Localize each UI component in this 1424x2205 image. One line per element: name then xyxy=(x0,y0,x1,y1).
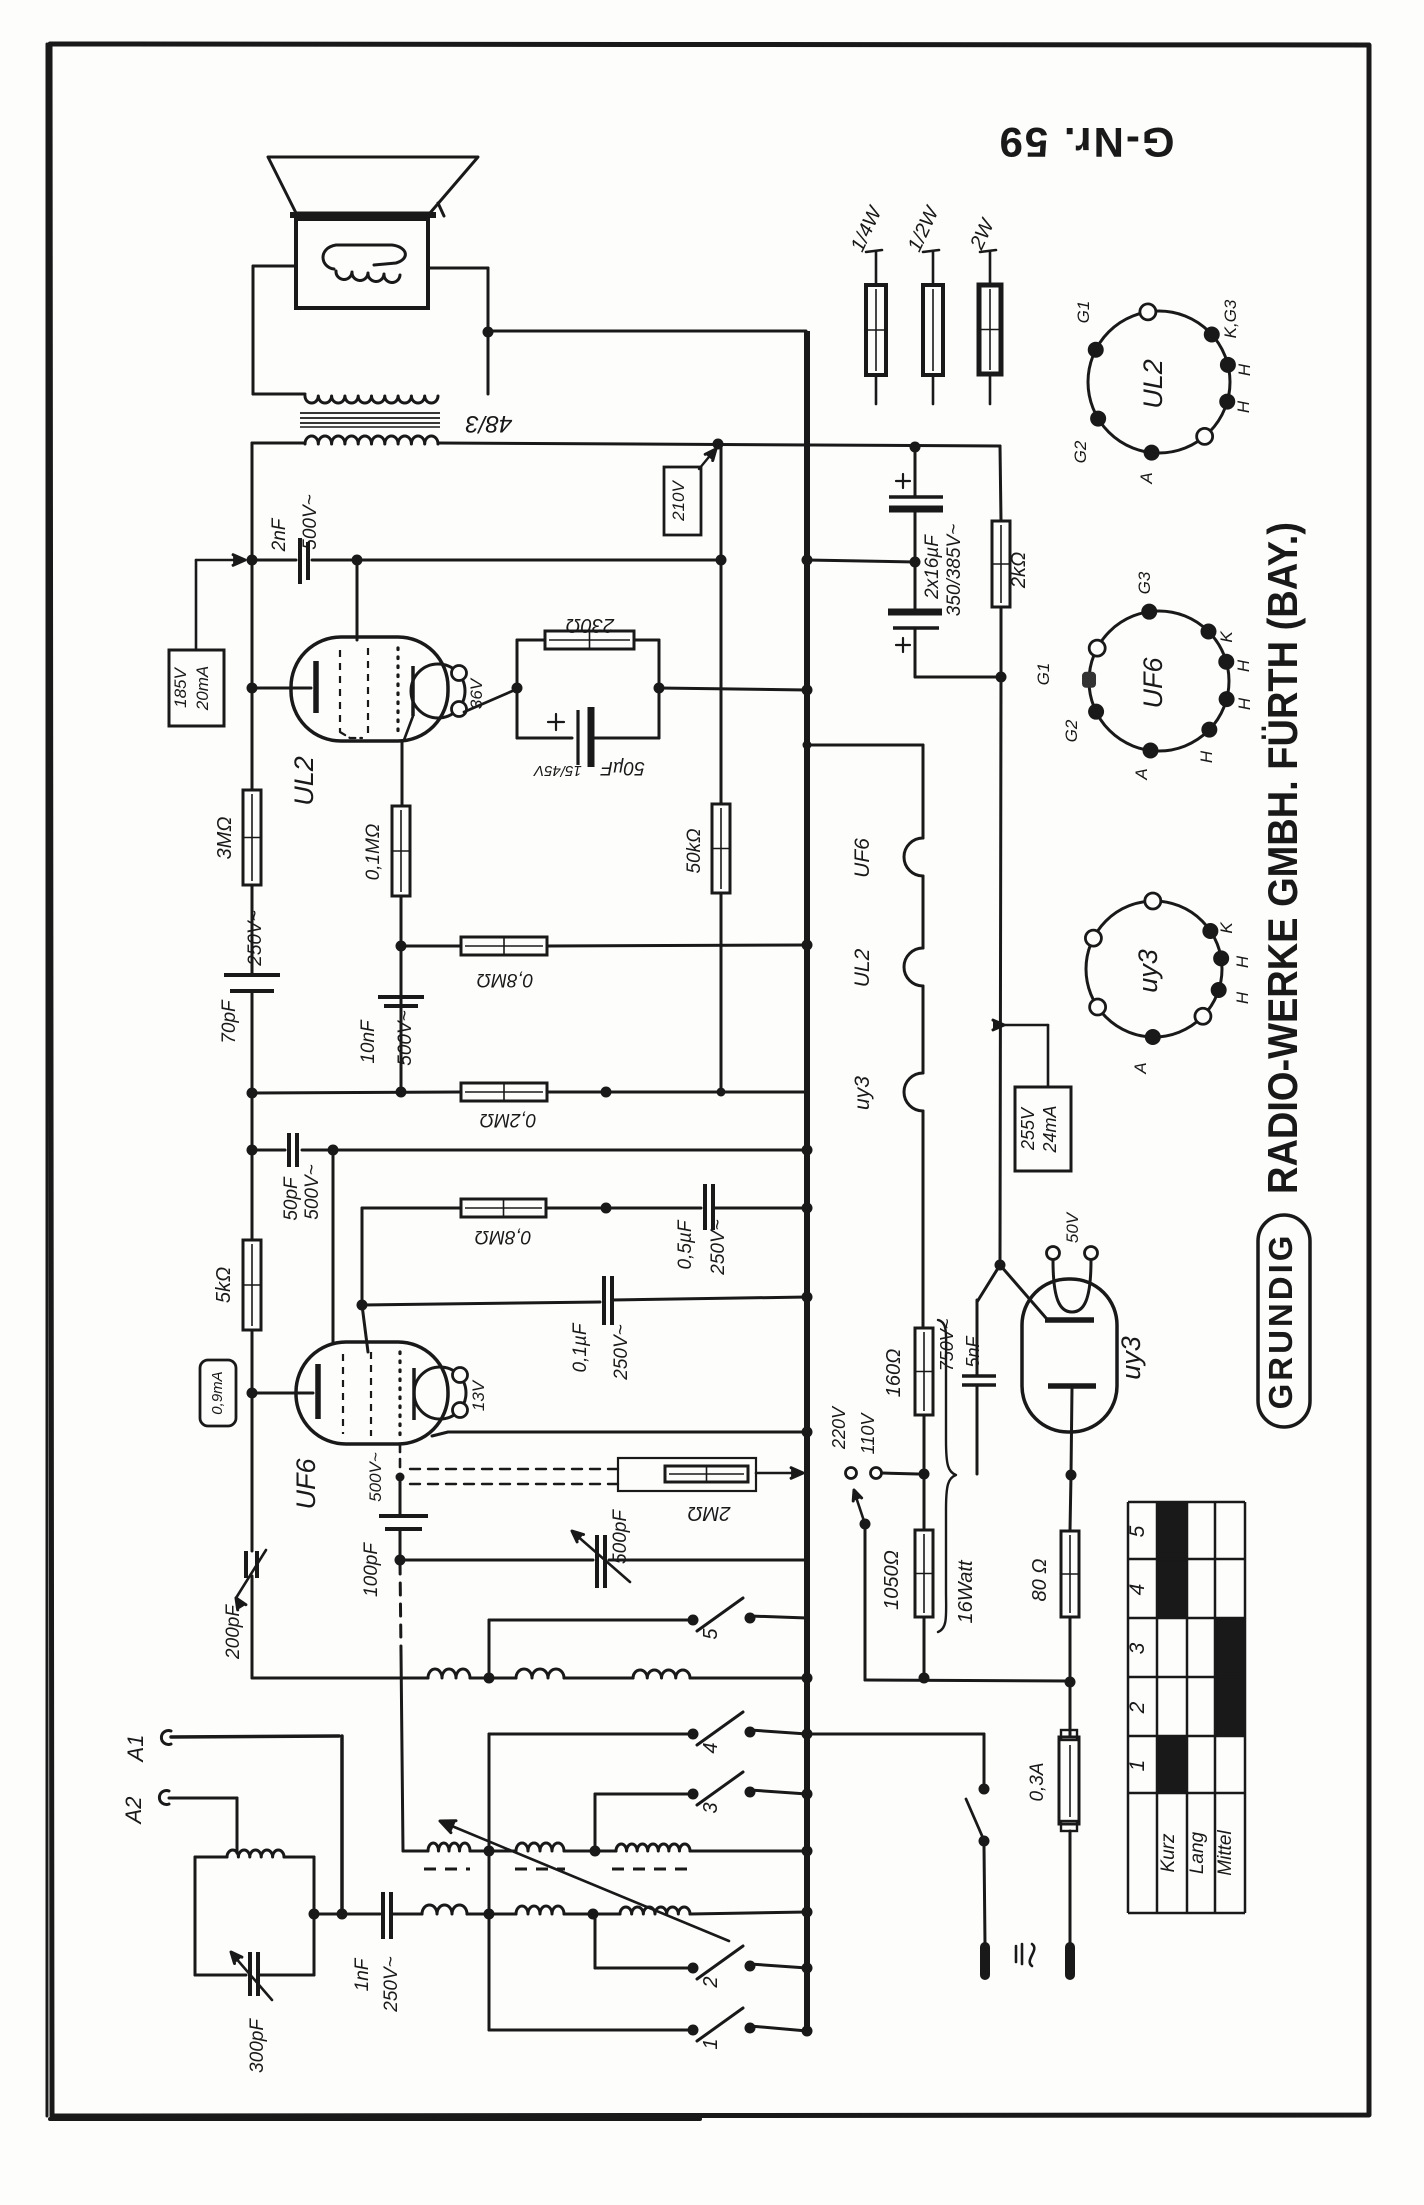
UF6 anode xyxy=(412,1368,416,1420)
svg-text:UL2: UL2 xyxy=(851,948,874,987)
band table xyxy=(1157,1502,1187,1618)
capacitor 2x16µF 350/385V~ upper xyxy=(914,447,917,497)
svg-text:H: H xyxy=(1197,750,1216,763)
capacitor 70pF 250V~ xyxy=(224,973,280,977)
svg-text:2kΩ: 2kΩ xyxy=(1008,552,1030,589)
wire heater chain xyxy=(807,744,923,747)
svg-text:2: 2 xyxy=(1126,1701,1149,1714)
wire oscillator line down (dashed top) xyxy=(400,1562,401,1652)
svg-text:Lang: Lang xyxy=(1187,1831,1208,1874)
svg-text:UF6: UF6 xyxy=(851,838,874,878)
resistor 160Ω xyxy=(915,1328,933,1415)
node 10nF bottom xyxy=(396,1087,407,1098)
node left rail 1093 xyxy=(247,1088,258,1099)
svg-text:48/3: 48/3 xyxy=(465,410,512,437)
svg-text:G1: G1 xyxy=(1074,301,1093,324)
box 210V xyxy=(664,467,701,535)
svg-text:70pF: 70pF xyxy=(219,999,240,1044)
svg-text:5nF: 5nF xyxy=(963,1335,983,1367)
tube UL2 envelope xyxy=(291,637,448,741)
wire switch4 left drop xyxy=(488,1734,491,2030)
wire B+ line to the right (210V line) xyxy=(438,443,1000,446)
svg-text:H: H xyxy=(1233,991,1252,1004)
legend resistor 2W xyxy=(989,252,992,285)
node speaker/output junction xyxy=(483,327,494,338)
svg-text:4: 4 xyxy=(1126,1584,1149,1596)
capacitor 0,5µF 250V~ xyxy=(703,1184,707,1230)
resistor 0,1MΩ xyxy=(392,806,410,896)
logo GRUNDIG xyxy=(1258,1215,1310,1427)
node bus taps xyxy=(802,555,813,566)
UF6 heater pins 13V xyxy=(453,1368,468,1383)
coil row1 a xyxy=(428,1669,470,1678)
node UY3 cathode xyxy=(1066,1470,1077,1481)
coil row3 a xyxy=(422,1905,467,1914)
node cathode block right xyxy=(654,683,665,694)
wire UY3 anode lead xyxy=(1000,1265,1046,1318)
capacitor 50pF 500V~ xyxy=(287,1133,291,1167)
resistor 0,8MΩ (UL2 grid stopper row) xyxy=(401,945,461,948)
wire 0.1u row xyxy=(362,1302,600,1305)
svg-text:50kΩ: 50kΩ xyxy=(684,828,705,873)
power switch xyxy=(807,1733,984,1736)
svg-text:0,9mA: 0,9mA xyxy=(209,1371,226,1414)
svg-text:K: K xyxy=(1217,922,1236,934)
svg-text:RADIO-WERKE GMBH. FÜRTH (BAY.): RADIO-WERKE GMBH. FÜRTH (BAY.) xyxy=(1259,522,1306,1194)
wire row2 left xyxy=(403,1850,428,1853)
capacitor 50µF 15/45V xyxy=(516,640,519,738)
svg-text:UF6: UF6 xyxy=(291,1458,321,1510)
svg-text:G2: G2 xyxy=(1071,440,1090,463)
measurement box 185V 20mA xyxy=(169,650,224,726)
fuse 0,3A xyxy=(1069,1682,1072,1737)
svg-text:2nF: 2nF xyxy=(269,517,290,552)
svg-text:G2: G2 xyxy=(1062,719,1081,742)
svg-text:255V: 255V xyxy=(1018,1106,1038,1151)
svg-text:10nF: 10nF xyxy=(358,1019,379,1064)
svg-text:210V: 210V xyxy=(669,479,688,521)
svg-text:350/385V~: 350/385V~ xyxy=(944,524,965,616)
trimmer capacitor 500pF xyxy=(595,1535,599,1588)
wire UL2 pins to cathode block xyxy=(464,689,517,712)
trimmer capacitor 200pF xyxy=(244,1551,248,1578)
svg-text:0,1MΩ: 0,1MΩ xyxy=(363,824,384,881)
antenna coil box xyxy=(195,1856,227,1859)
tube UY3 envelope xyxy=(1022,1279,1117,1432)
svg-text:Kurz: Kurz xyxy=(1158,1833,1179,1873)
svg-text:uy3: uy3 xyxy=(1116,1336,1146,1380)
coil row3 c xyxy=(620,1907,690,1914)
switch 5 xyxy=(688,1615,699,1626)
brace 16Watt xyxy=(938,1320,956,1632)
svg-text:H: H xyxy=(1234,659,1253,672)
svg-text:A: A xyxy=(1131,1062,1150,1074)
svg-text:H: H xyxy=(1234,400,1253,413)
antenna coil xyxy=(227,1850,284,1857)
wire UF6 cathode lead xyxy=(252,1392,313,1395)
UL2 grid3 dotted xyxy=(396,648,399,736)
svg-text:160Ω: 160Ω xyxy=(883,1349,905,1398)
wire mains bottom xyxy=(865,1680,1070,1681)
svg-text:GRUNDIG: GRUNDIG xyxy=(1262,1233,1299,1410)
node UY3 anode xyxy=(995,1260,1006,1271)
svg-text:1: 1 xyxy=(700,2038,722,2049)
UL2 cathode xyxy=(313,661,319,713)
svg-text:110V: 110V xyxy=(858,1412,878,1455)
wire main chassis bus xyxy=(804,331,810,2032)
wire UY3 cathode lead xyxy=(1071,1388,1072,1474)
socket uy3 xyxy=(1086,901,1222,1037)
svg-text:A: A xyxy=(1137,472,1156,484)
svg-text:UL2: UL2 xyxy=(1138,359,1168,409)
output transformer secondary xyxy=(305,436,438,444)
wire UL2 grid top xyxy=(356,560,359,640)
resistor 2MΩ dashed box xyxy=(618,1458,756,1491)
UF6 pinch circle xyxy=(414,1367,466,1419)
node left rail / grid line xyxy=(247,555,258,566)
svg-text:250V~: 250V~ xyxy=(708,1219,729,1275)
svg-text:UF6: UF6 xyxy=(1138,657,1168,709)
svg-text:A2: A2 xyxy=(121,1797,146,1826)
wire row1 left xyxy=(252,1677,428,1680)
svg-text:220V: 220V xyxy=(829,1405,849,1450)
wire switch3 to row2 xyxy=(594,1794,597,1851)
tuning arrow xyxy=(447,1824,729,1941)
voltage selector blade xyxy=(860,1519,871,1530)
capacitor 5nF 750V~ xyxy=(977,1265,1000,1302)
capacitor 1nF 250V~ xyxy=(381,1892,385,1939)
svg-text:3MΩ: 3MΩ xyxy=(214,817,236,860)
svg-text:500V~: 500V~ xyxy=(300,494,321,549)
trimmer capacitor 300pF xyxy=(248,1952,252,1996)
output transformer 48/3 primary xyxy=(305,396,438,403)
legend resistor 1/2W xyxy=(932,252,935,285)
svg-text:50µF: 50µF xyxy=(600,757,645,778)
wire switch2 to row3 xyxy=(594,1914,597,1968)
svg-text:H: H xyxy=(1235,363,1254,376)
svg-text:5: 5 xyxy=(700,1628,722,1640)
wire left rail xyxy=(251,443,254,790)
node left rail UF6 cathode xyxy=(247,1388,258,1399)
svg-text:0,8MΩ: 0,8MΩ xyxy=(475,1226,532,1247)
socket UF6 xyxy=(1089,611,1229,751)
node 50k feed xyxy=(716,555,727,566)
coil row3 b xyxy=(516,1906,564,1914)
UY3 cathode xyxy=(1048,1383,1096,1389)
wire rectifier output down xyxy=(1000,677,1001,1265)
svg-text:G3: G3 xyxy=(1135,571,1154,594)
svg-text:5kΩ: 5kΩ xyxy=(213,1267,235,1303)
svg-text:1nF: 1nF xyxy=(352,1957,373,1991)
svg-text:uy3: uy3 xyxy=(851,1076,874,1110)
node grid down xyxy=(352,555,363,566)
svg-text:20mA: 20mA xyxy=(193,666,212,711)
terminal 220V xyxy=(846,1468,857,1479)
node 0.5u/screen xyxy=(601,1203,612,1214)
svg-text:24mA: 24mA xyxy=(1040,1105,1060,1153)
wire AF line xyxy=(252,1149,285,1152)
svg-text:750V~: 750V~ xyxy=(937,1319,957,1372)
node box tap xyxy=(309,1909,320,1920)
wire 185V pointer xyxy=(195,560,198,650)
svg-text:15/45V: 15/45V xyxy=(532,762,582,779)
UF6 grid3 dotted xyxy=(398,1352,401,1438)
svg-text:UL2: UL2 xyxy=(289,756,319,806)
wire 2M to bus with arrow xyxy=(756,1472,797,1475)
svg-text:50pF: 50pF xyxy=(281,1176,302,1221)
svg-text:200pF: 200pF xyxy=(223,1604,244,1660)
wire anode node xyxy=(400,896,403,1092)
svg-text:0,1µF: 0,1µF xyxy=(570,1322,591,1372)
capacitor 2nF 500V~ xyxy=(298,538,302,584)
svg-text:5: 5 xyxy=(1126,1525,1149,1537)
node UF6 grid xyxy=(328,1145,339,1156)
node cathode block left xyxy=(512,683,523,694)
wire speaker right xyxy=(428,267,488,270)
box 0,9mA xyxy=(200,1360,236,1426)
coupling dashes row2 xyxy=(424,1868,470,1871)
node row1 ab xyxy=(484,1673,495,1684)
svg-text:300pF: 300pF xyxy=(247,2018,268,2073)
wire A2 xyxy=(169,1797,237,1800)
coil row2 c xyxy=(616,1844,690,1851)
wire A1 xyxy=(171,1736,339,1737)
resistor 50kΩ xyxy=(712,804,730,893)
wire UL2 grid line xyxy=(252,559,296,562)
capacitor 100pF 500V~ xyxy=(399,1477,402,1515)
wire 0.8M left corner down xyxy=(361,1208,364,1305)
svg-text:185V: 185V xyxy=(171,666,190,707)
svg-text:G-Nr. 59: G-Nr. 59 xyxy=(997,119,1174,166)
resistor 1050Ω xyxy=(923,1474,926,1530)
UL2 anode xyxy=(411,666,415,716)
wire UF6 anode to bus xyxy=(432,1432,807,1436)
wire screen line xyxy=(252,1092,461,1093)
svg-text:50V: 50V xyxy=(1063,1211,1082,1243)
mains plug pin right xyxy=(1065,1947,1075,1975)
node row3 ab xyxy=(484,1909,495,1920)
wire 0.8M lower row xyxy=(362,1207,461,1210)
wire switch5 feed xyxy=(488,1620,491,1678)
UL2 pinch circle xyxy=(411,664,465,718)
node 50k bottom xyxy=(717,1088,726,1097)
node row3 bc xyxy=(588,1909,599,1920)
wire 50k feed vertical xyxy=(720,444,723,804)
svg-text:H: H xyxy=(1235,697,1254,710)
svg-text:A: A xyxy=(1132,768,1151,780)
resistor 230Ω xyxy=(517,639,545,642)
wire grid2 into UF6 xyxy=(362,1305,368,1352)
wire junction to bus xyxy=(488,330,806,333)
node 0.1u row xyxy=(357,1300,368,1311)
coil row2 a xyxy=(428,1843,470,1851)
svg-text:1: 1 xyxy=(1126,1760,1149,1772)
tube UF6 envelope xyxy=(296,1342,448,1444)
terminal 110V xyxy=(871,1468,882,1479)
speaker magnet box xyxy=(296,219,428,308)
node left rail 1150 xyxy=(247,1145,258,1156)
svg-text:2: 2 xyxy=(700,1976,722,1988)
wire AVC dashed xyxy=(399,1444,402,1477)
node row2 bc xyxy=(590,1846,601,1857)
svg-text:250V~: 250V~ xyxy=(381,1956,402,2012)
UY3 heater pins 50V xyxy=(1047,1247,1060,1260)
node fuse top xyxy=(1065,1677,1076,1688)
svg-text:G1: G1 xyxy=(1034,663,1053,686)
UY3 anode xyxy=(1045,1317,1094,1323)
voice coil xyxy=(323,245,405,269)
svg-text:K,G3: K,G3 xyxy=(1221,299,1240,338)
svg-text:H: H xyxy=(1233,955,1252,968)
switch 4 xyxy=(489,1733,688,1736)
svg-text:Mittel: Mittel xyxy=(1215,1830,1236,1876)
mains plug pin left xyxy=(980,1947,990,1975)
svg-text:uy3: uy3 xyxy=(1133,949,1163,993)
svg-text:16Watt: 16Watt xyxy=(955,1559,977,1623)
node A1 tap xyxy=(337,1909,348,1920)
svg-text:3: 3 xyxy=(1126,1642,1149,1654)
resistor 3MΩ xyxy=(243,790,261,885)
switch 1 xyxy=(489,2029,688,2032)
svg-text:2MΩ: 2MΩ xyxy=(688,1502,732,1524)
wire row1 mid xyxy=(489,1677,516,1680)
arrow 210V pointer xyxy=(699,452,713,469)
wire row3 left xyxy=(314,1913,380,1916)
coil row1 c xyxy=(633,1670,690,1678)
svg-text:100pF: 100pF xyxy=(361,1542,382,1597)
wire UL2 cathode lead xyxy=(252,687,311,690)
svg-text:0,8MΩ: 0,8MΩ xyxy=(477,969,534,990)
UF6 grids dashed xyxy=(342,1354,344,1434)
svg-text:13V: 13V xyxy=(469,1379,488,1411)
mains symbol ~ xyxy=(1015,1946,1018,1962)
transformer core xyxy=(300,412,440,414)
capacitor 2x16µF lower xyxy=(914,562,917,611)
wire 255V pointer xyxy=(993,1020,1004,1030)
svg-text:80 Ω: 80 Ω xyxy=(1029,1558,1051,1601)
svg-text:500V~: 500V~ xyxy=(366,1452,385,1502)
svg-text:500V~: 500V~ xyxy=(395,1010,416,1065)
svg-text:4: 4 xyxy=(700,1742,722,1753)
wire secondary left to main left rail xyxy=(252,442,305,445)
switch 2 xyxy=(595,1967,688,1970)
loudspeaker xyxy=(268,157,478,213)
resistor 0,8MΩ (AVC) xyxy=(461,1199,546,1217)
legend resistor 1/4W xyxy=(875,252,878,285)
svg-text:250V~: 250V~ xyxy=(611,1324,632,1380)
node left rail / cathode line xyxy=(247,683,258,694)
resistor 2kΩ xyxy=(1000,446,1001,521)
svg-text:1050Ω: 1050Ω xyxy=(881,1550,903,1610)
svg-text:250V~: 250V~ xyxy=(245,910,266,966)
svg-text:0,2MΩ: 0,2MΩ xyxy=(480,1109,537,1130)
switch 3 xyxy=(595,1793,688,1796)
node B+ 210V xyxy=(713,439,724,450)
wire cathode to bus xyxy=(659,688,807,690)
terminal A1 xyxy=(161,1731,171,1745)
svg-text:500pF: 500pF xyxy=(610,1509,631,1564)
svg-text:0,3A: 0,3A xyxy=(1027,1762,1048,1801)
UL2 grids dashed xyxy=(339,650,341,732)
svg-text:K: K xyxy=(1217,631,1236,643)
resistor 5kΩ xyxy=(243,1240,261,1330)
svg-text:500V~: 500V~ xyxy=(302,1164,323,1219)
svg-text:A1: A1 xyxy=(123,1735,148,1764)
svg-text:2x16µF: 2x16µF xyxy=(922,534,943,600)
node 500p row xyxy=(395,1555,406,1566)
UF6 cathode xyxy=(315,1364,321,1419)
resistor 2MΩ xyxy=(665,1466,748,1482)
node anode/0.8M xyxy=(396,941,407,952)
svg-text:0,5µF: 0,5µF xyxy=(675,1219,696,1269)
coil row1 b xyxy=(516,1669,564,1678)
node row2 ab xyxy=(484,1846,495,1857)
UL2 heater pins 36V xyxy=(452,666,467,681)
terminal A2 xyxy=(159,1791,169,1805)
wire UL2 anode down xyxy=(401,741,404,806)
wire 500p row xyxy=(400,1559,593,1562)
resistor 80Ω xyxy=(1070,1475,1071,1531)
capacitor 10nF 500V~ xyxy=(378,995,424,999)
capacitor 0,1µF 250V~ xyxy=(602,1276,606,1325)
wire bus top stub y560 xyxy=(807,560,915,562)
wire UF6 grid down xyxy=(332,1150,335,1344)
wire speaker left xyxy=(253,265,296,268)
node screen/0.5u xyxy=(601,1087,612,1098)
socket UL2 xyxy=(1088,311,1230,453)
svg-text:230Ω: 230Ω xyxy=(566,614,616,636)
coil row2 b xyxy=(516,1843,564,1851)
UY3 heater xyxy=(1053,1260,1091,1312)
box 255V 24mA xyxy=(1015,1087,1071,1171)
node mains tap xyxy=(919,1469,930,1480)
node 2k bottom xyxy=(996,672,1007,683)
svg-text:3: 3 xyxy=(700,1802,722,1813)
resistor 0,2MΩ xyxy=(461,1083,547,1101)
